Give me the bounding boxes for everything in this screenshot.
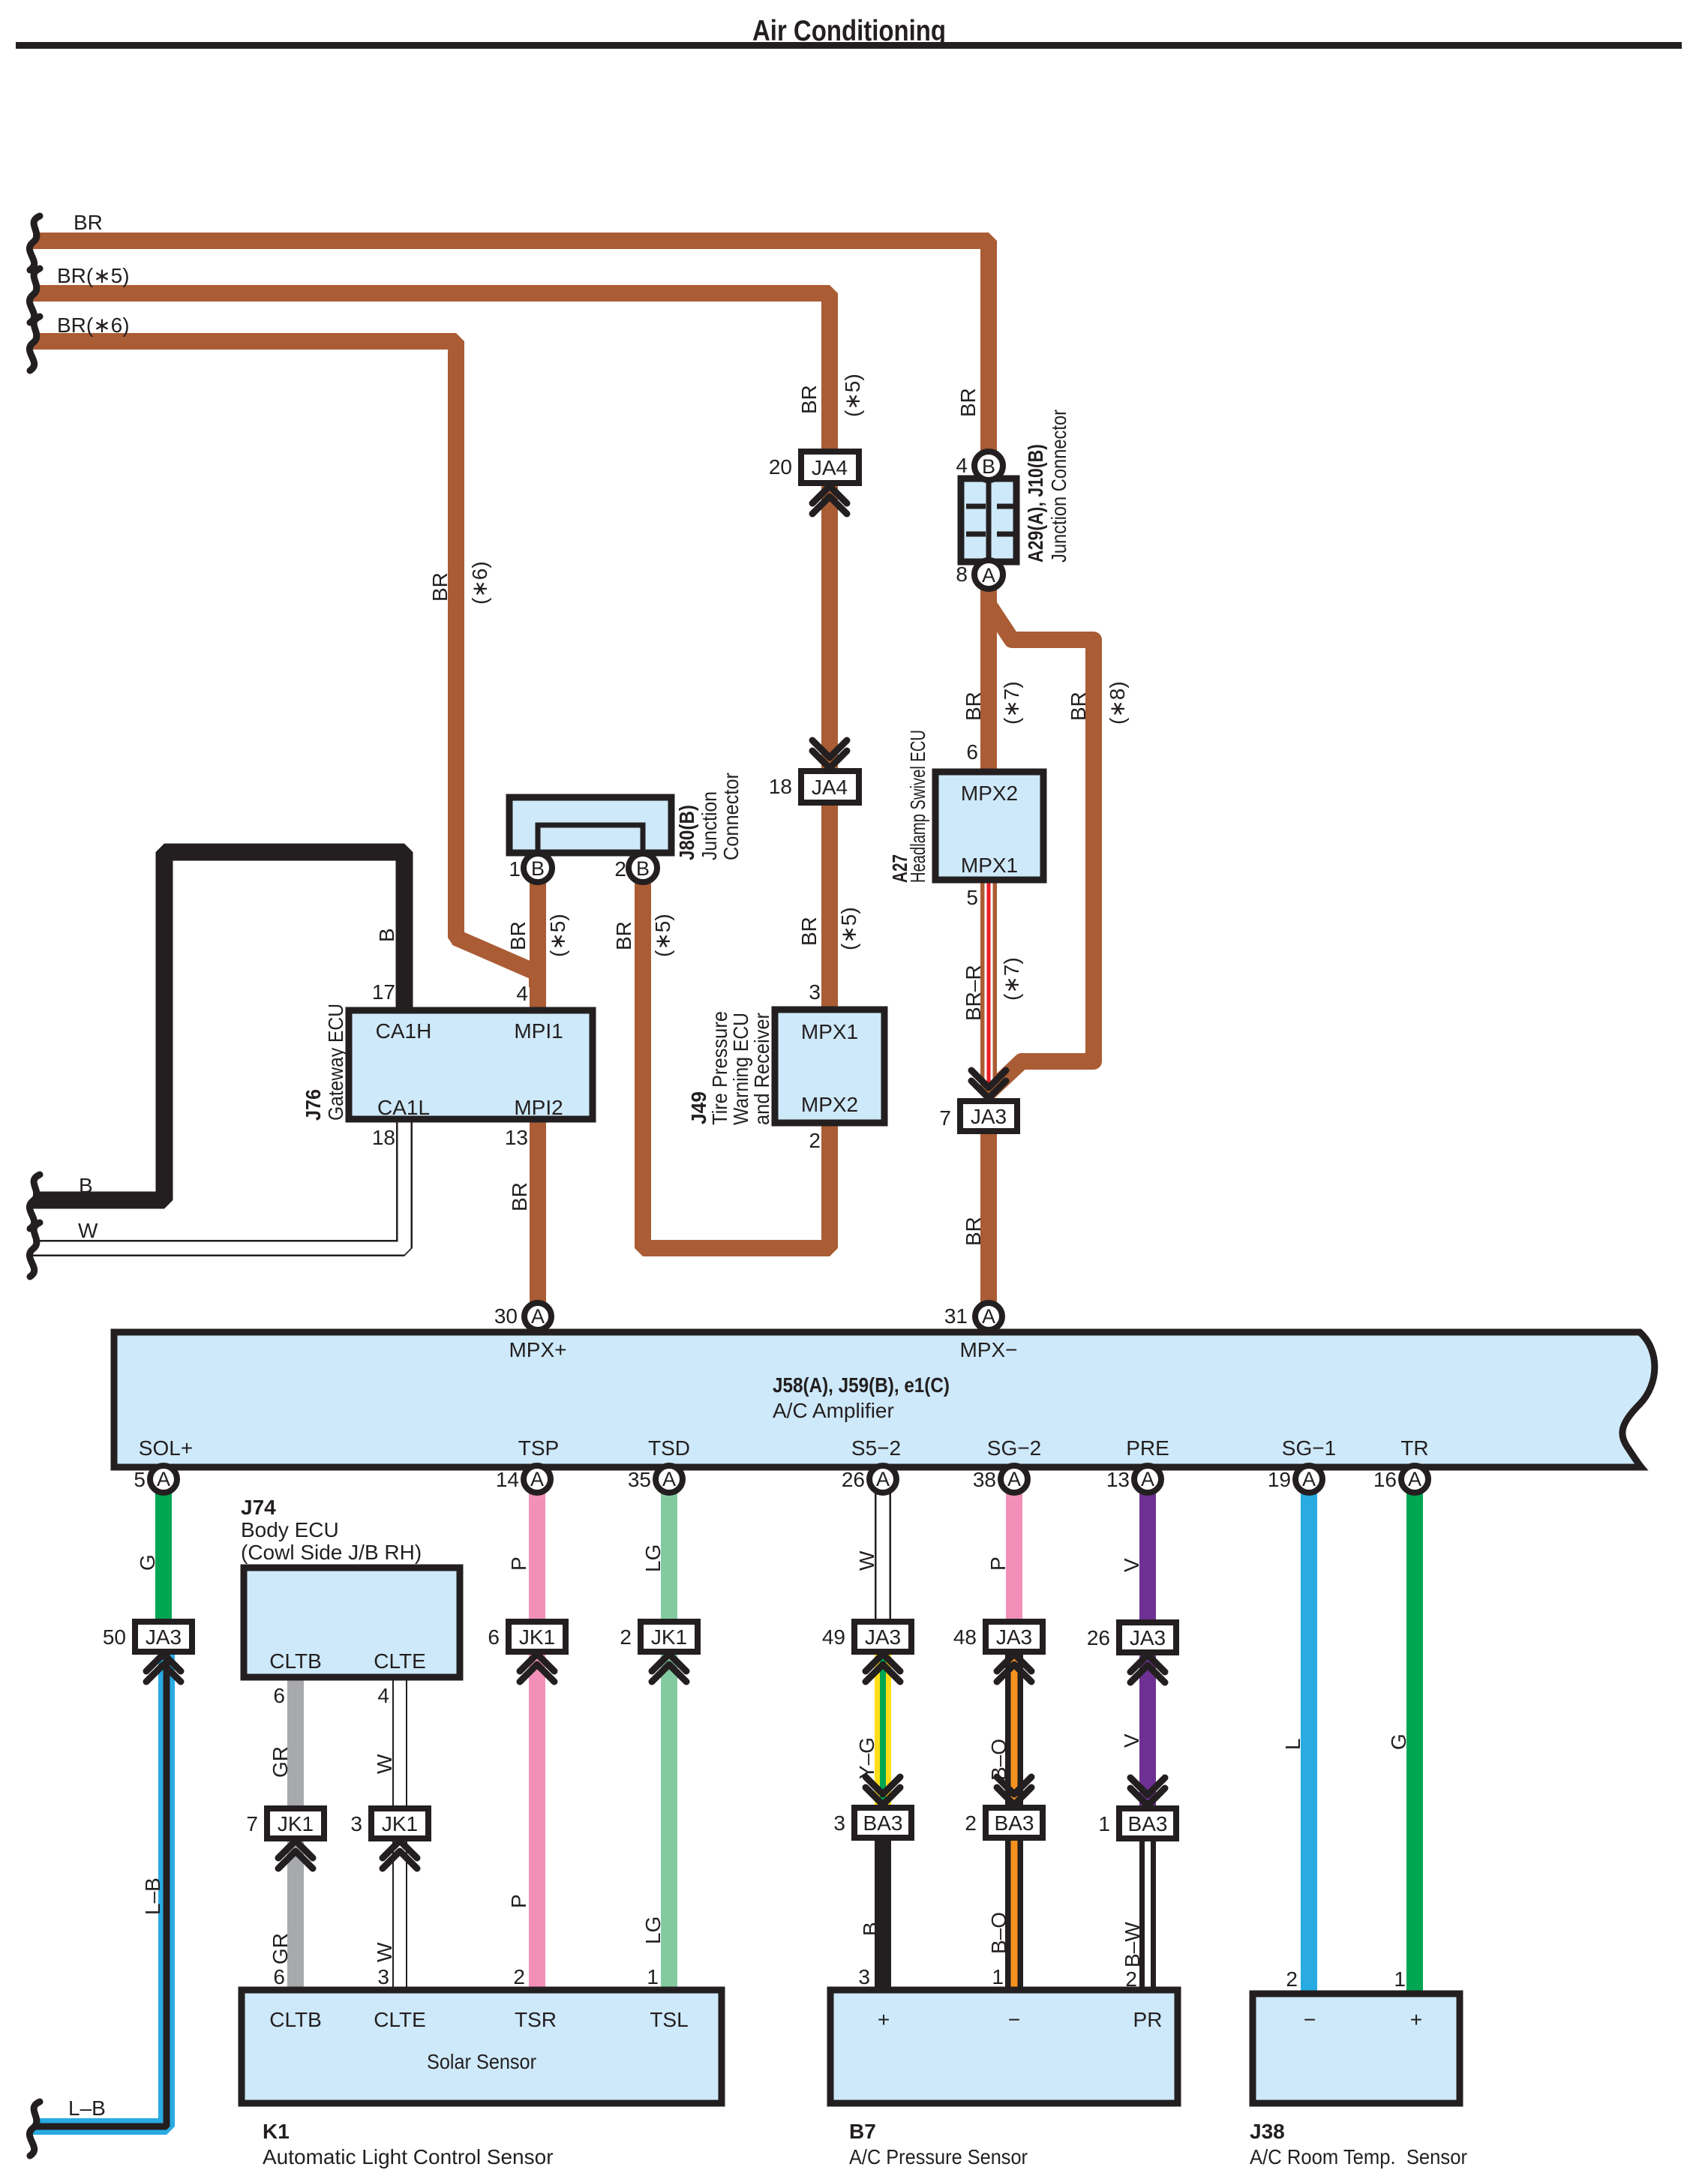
- svg-text:(∗7): (∗7): [1000, 681, 1023, 725]
- svg-text:CLTB: CLTB: [269, 1649, 322, 1673]
- svg-text:A: A: [876, 1468, 890, 1490]
- wire BR A29 pin A to A27 MPX2 pin 6: [980, 587, 997, 773]
- connector JK1 6: [509, 1622, 566, 1652]
- svg-text:TR: TR: [1400, 1436, 1428, 1460]
- svg-text:Junction: Junction: [698, 791, 721, 860]
- svg-text:+: +: [1410, 2008, 1422, 2031]
- svg-text:3: 3: [350, 1812, 362, 1835]
- svg-text:BR: BR: [508, 1182, 531, 1211]
- A/C amplifier box: [114, 1332, 1655, 1467]
- svg-text:MPX2: MPX2: [801, 1093, 858, 1116]
- pin A amplifier 16: [1401, 1466, 1428, 1493]
- connector JA3 49: [854, 1622, 911, 1652]
- connector JA4 18: [801, 771, 859, 803]
- svg-text:2: 2: [1125, 1967, 1137, 1991]
- svg-text:W: W: [373, 1754, 396, 1774]
- chevron up below JA3 26: [1130, 1655, 1165, 1682]
- svg-text:(∗6): (∗6): [468, 561, 491, 605]
- pin A amplifier 30: [524, 1303, 551, 1330]
- junction connector A29 dashed dividers: [966, 504, 1013, 509]
- connector JK1 2: [641, 1622, 698, 1652]
- svg-text:J80(B): J80(B): [675, 805, 698, 860]
- pressure sensor B7 box: [830, 1990, 1178, 2103]
- svg-text:A: A: [1007, 1468, 1021, 1490]
- pin A amplifier 26: [869, 1466, 896, 1493]
- svg-text:(∗5): (∗5): [546, 914, 569, 957]
- wire W amplifier S5-2 pin 26 to JA3 49: [875, 1491, 891, 1623]
- svg-text:B: B: [859, 1922, 882, 1936]
- svg-text:18: 18: [769, 775, 792, 798]
- svg-text:BR: BR: [428, 572, 452, 602]
- svg-text:BR: BR: [962, 692, 985, 721]
- svg-text:Y–G: Y–G: [855, 1737, 878, 1779]
- svg-text:4: 4: [377, 1684, 389, 1707]
- wire BR top to A29 pin B: [33, 241, 989, 452]
- svg-text:13: 13: [505, 1126, 528, 1149]
- wire P amplifier TSP pin 14 to JK1 6: [529, 1491, 545, 1623]
- svg-text:CLTE: CLTE: [374, 1649, 426, 1673]
- svg-text:7: 7: [246, 1812, 258, 1835]
- svg-text:6: 6: [273, 1965, 285, 1988]
- svg-text:7: 7: [939, 1106, 951, 1130]
- svg-text:BR–R: BR–R: [962, 965, 985, 1021]
- svg-text:B7: B7: [849, 2120, 876, 2143]
- wire B-O BA3 2 to pressure sensor pin 1: [1005, 1836, 1023, 1991]
- svg-text:(∗5): (∗5): [651, 914, 674, 957]
- svg-text:35: 35: [628, 1468, 651, 1491]
- svg-text:A: A: [530, 1468, 544, 1490]
- pin A amplifier 35: [656, 1466, 683, 1493]
- junction connector A29(A) J10(B) box: [961, 479, 1016, 562]
- svg-text:JA3: JA3: [1130, 1626, 1166, 1649]
- svg-text:LG: LG: [641, 1916, 665, 1944]
- wire BR(*6) to J80 pin 1 branch: [33, 341, 537, 987]
- svg-text:17: 17: [372, 980, 395, 1004]
- chevron down above BA3 2: [997, 1777, 1031, 1805]
- svg-text:J58(A), J59(B), e1(C): J58(A), J59(B), e1(C): [773, 1373, 950, 1397]
- svg-text:TSD: TSD: [648, 1436, 690, 1460]
- wire BR(*5) JA4 20 to JA4 18: [821, 482, 838, 773]
- svg-text:26: 26: [842, 1468, 865, 1491]
- svg-text:14: 14: [496, 1468, 519, 1491]
- svg-text:3: 3: [809, 980, 821, 1004]
- svg-text:4: 4: [956, 454, 968, 477]
- svg-text:2: 2: [1286, 1967, 1298, 1991]
- svg-text:JK1: JK1: [651, 1625, 687, 1649]
- svg-text:JA3: JA3: [146, 1625, 182, 1649]
- svg-text:JA4: JA4: [812, 776, 848, 799]
- headlamp swivel ECU A27 box: [935, 772, 1043, 880]
- junction connector J80(B) inner bus bar: [538, 825, 643, 853]
- svg-text:(∗5): (∗5): [841, 374, 864, 417]
- wire BR gateway MPI2 pin 13 to amplifier pin 30: [530, 1118, 546, 1313]
- wire L-B JA3 50 to bottom left: [33, 1650, 167, 2126]
- wire break curl BR(*6) wire3: [29, 317, 40, 371]
- svg-text:A29(A), J10(B): A29(A), J10(B): [1024, 444, 1047, 563]
- svg-text:SG−2: SG−2: [987, 1436, 1041, 1460]
- svg-text:−: −: [1008, 2008, 1020, 2031]
- svg-text:L–B: L–B: [141, 1877, 164, 1915]
- junction connector A29 vertical divider: [986, 482, 992, 559]
- svg-text:6: 6: [966, 740, 978, 764]
- wire BR(*5) J80 pin 1 to gateway MPI1 pin 4: [530, 879, 546, 1012]
- svg-text:CLTE: CLTE: [374, 2008, 426, 2031]
- svg-text:BR: BR: [797, 917, 821, 946]
- svg-text:(∗5): (∗5): [837, 907, 860, 950]
- wire P JK1 6 to solar sensor TSR pin 2: [529, 1650, 545, 1991]
- svg-text:CLTB: CLTB: [269, 2008, 322, 2031]
- body ECU J74 box: [244, 1568, 460, 1677]
- pin A amplifier 38: [1001, 1466, 1028, 1493]
- svg-text:J38: J38: [1250, 2120, 1285, 2143]
- svg-text:BR(∗6): BR(∗6): [57, 314, 130, 337]
- svg-text:2: 2: [614, 857, 626, 881]
- svg-text:48: 48: [953, 1625, 977, 1649]
- wire BR(*8) loop A29 to JA3 7: [984, 605, 1094, 1097]
- chevron up below JA4 20: [812, 486, 847, 514]
- svg-text:GR: GR: [269, 1933, 292, 1964]
- wire W JK1 3 to solar sensor CLTE pin 3: [392, 1837, 407, 1991]
- svg-text:MPX2: MPX2: [961, 782, 1018, 805]
- chevron up below JK1 3: [383, 1841, 417, 1868]
- svg-text:V: V: [1120, 1558, 1143, 1572]
- svg-text:1: 1: [992, 1965, 1004, 1988]
- svg-text:(∗8): (∗8): [1106, 681, 1129, 725]
- svg-text:2: 2: [809, 1129, 821, 1152]
- svg-text:JK1: JK1: [278, 1812, 314, 1835]
- svg-text:MPX−: MPX−: [959, 1338, 1017, 1361]
- svg-text:L: L: [1281, 1738, 1304, 1750]
- svg-text:W: W: [78, 1219, 98, 1242]
- svg-text:P: P: [507, 1894, 530, 1908]
- svg-text:JK1: JK1: [382, 1812, 418, 1835]
- svg-text:26: 26: [1087, 1626, 1110, 1649]
- svg-text:G: G: [1387, 1733, 1410, 1750]
- svg-text:J49: J49: [687, 1091, 710, 1124]
- svg-text:A: A: [982, 564, 995, 587]
- wire BR-R A27 MPX1 pin 5 to JA3 7: [980, 878, 997, 1088]
- wire G amplifier TR pin 16 to room temp sensor pin 1: [1406, 1491, 1423, 1995]
- connector BA3 3: [854, 1808, 911, 1838]
- wire W gateway CA1L pin 18 to left: [33, 1118, 404, 1248]
- svg-text:S5−2: S5−2: [851, 1436, 901, 1460]
- chevron up below JK1 7: [278, 1841, 313, 1868]
- svg-text:5: 5: [134, 1468, 146, 1491]
- svg-text:W: W: [373, 1942, 396, 1962]
- connector JA3 48: [986, 1622, 1043, 1652]
- pin A amplifier 5: [150, 1466, 177, 1493]
- svg-text:1: 1: [1098, 1812, 1110, 1835]
- wire B-W BA3 1 to pressure sensor PR pin 2: [1139, 1838, 1156, 1991]
- svg-text:JA3: JA3: [996, 1625, 1032, 1649]
- wire V JA3 26 to BA3 1: [1139, 1652, 1156, 1809]
- svg-text:B–W: B–W: [1121, 1922, 1144, 1967]
- svg-text:3: 3: [858, 1965, 870, 1988]
- chevron up below JK1 2: [652, 1654, 686, 1682]
- wire BR(*5) J80 pin 2 to J49 MPX2 pin 2: [643, 879, 830, 1248]
- svg-text:−: −: [1304, 2008, 1316, 2031]
- junction connector J80(B) box: [509, 797, 671, 853]
- svg-text:CA1L: CA1L: [377, 1096, 430, 1119]
- wire B BA3 3 to pressure sensor pin 3: [875, 1836, 891, 1991]
- chevron down above JA4 18: [812, 740, 847, 768]
- svg-text:BR: BR: [74, 211, 103, 234]
- pin B J80 2: [629, 854, 657, 882]
- svg-text:B–O: B–O: [987, 1912, 1010, 1954]
- svg-text:SOL+: SOL+: [139, 1436, 193, 1460]
- svg-text:A: A: [1302, 1468, 1316, 1490]
- svg-text:2: 2: [513, 1965, 525, 1988]
- pin A amplifier 14: [524, 1466, 551, 1493]
- svg-text:MPX1: MPX1: [801, 1020, 858, 1043]
- wire break curl L-B wire: [29, 2102, 40, 2156]
- connector JA3 7: [960, 1101, 1017, 1131]
- chevron down above JA3 7: [971, 1070, 1006, 1098]
- svg-text:1: 1: [509, 857, 521, 881]
- svg-text:B: B: [79, 1174, 93, 1197]
- pin A A29 bottom: [974, 560, 1003, 589]
- svg-text:A: A: [662, 1468, 676, 1490]
- svg-text:49: 49: [822, 1625, 845, 1649]
- pin A amplifier 13: [1134, 1466, 1161, 1493]
- svg-text:JA3: JA3: [865, 1625, 901, 1649]
- svg-text:1: 1: [647, 1965, 659, 1988]
- svg-text:SG−1: SG−1: [1282, 1436, 1336, 1460]
- svg-text:B: B: [636, 857, 650, 880]
- chevron down above BA3 1: [1130, 1778, 1165, 1805]
- svg-text:4: 4: [516, 982, 528, 1005]
- svg-text:BA3: BA3: [995, 1811, 1034, 1835]
- svg-text:JA3: JA3: [971, 1105, 1007, 1128]
- wire L amplifier SG-1 pin 19 to room temp sensor pin 2: [1301, 1491, 1317, 1995]
- svg-text:BA3: BA3: [863, 1811, 903, 1835]
- connector JA3 26: [1119, 1622, 1176, 1652]
- svg-text:BR: BR: [797, 385, 821, 414]
- svg-text:MPI2: MPI2: [514, 1096, 563, 1119]
- svg-text:A: A: [157, 1468, 170, 1490]
- svg-text:PR: PR: [1133, 2008, 1163, 2031]
- svg-text:2: 2: [965, 1811, 977, 1835]
- svg-text:V: V: [1120, 1733, 1143, 1748]
- svg-text:JK1: JK1: [519, 1625, 555, 1649]
- svg-text:Gateway ECU: Gateway ECU: [324, 1004, 347, 1121]
- svg-text:and Receiver: and Receiver: [750, 1013, 773, 1125]
- connector BA3 2: [986, 1808, 1043, 1838]
- svg-text:Tire Pressure: Tire Pressure: [708, 1011, 731, 1125]
- svg-text:6: 6: [273, 1684, 285, 1707]
- svg-text:A: A: [982, 1305, 995, 1328]
- svg-text:MPX+: MPX+: [509, 1338, 566, 1361]
- svg-text:2: 2: [620, 1625, 632, 1649]
- svg-text:BR: BR: [1067, 692, 1090, 721]
- svg-text:8: 8: [956, 563, 968, 586]
- gateway ECU J76 box: [349, 1010, 593, 1119]
- svg-text:B: B: [982, 455, 995, 478]
- svg-text:B: B: [375, 928, 398, 942]
- svg-text:A/C Amplifier: A/C Amplifier: [773, 1399, 894, 1422]
- wire GR body ECU CLTB pin 6 to JK1 7: [287, 1676, 304, 1810]
- svg-text:6: 6: [488, 1625, 500, 1649]
- svg-text:Junction Connector: Junction Connector: [1047, 410, 1070, 563]
- svg-text:16: 16: [1373, 1468, 1397, 1491]
- svg-text:Connector: Connector: [719, 773, 743, 860]
- solar sensor K1 box: [242, 1990, 722, 2103]
- tire pressure warning ECU J49 box: [775, 1010, 884, 1123]
- svg-text:Solar Sensor: Solar Sensor: [427, 2050, 536, 2073]
- wire GR JK1 7 to solar sensor CLTB pin 6: [287, 1837, 304, 1991]
- svg-text:19: 19: [1268, 1468, 1291, 1491]
- svg-text:A/C Pressure Sensor: A/C Pressure Sensor: [849, 2145, 1028, 2168]
- chevron up below JA3 49: [866, 1654, 900, 1682]
- svg-text:31: 31: [944, 1304, 968, 1328]
- svg-text:Warning ECU: Warning ECU: [729, 1013, 752, 1125]
- wire break curl BR wire1: [29, 216, 40, 270]
- wire V amplifier PRE pin 13 to JA3 26: [1139, 1491, 1156, 1624]
- svg-text:L–B: L–B: [68, 2096, 106, 2120]
- svg-text:TSP: TSP: [518, 1436, 559, 1460]
- svg-text:B: B: [531, 857, 545, 880]
- wire LG amplifier TSD pin 35 to JK1 2: [661, 1491, 677, 1623]
- svg-text:W: W: [855, 1550, 878, 1571]
- svg-text:J74: J74: [241, 1496, 276, 1519]
- svg-text:A: A: [531, 1305, 545, 1328]
- svg-text:LG: LG: [641, 1544, 665, 1572]
- svg-text:13: 13: [1106, 1468, 1130, 1491]
- svg-text:Automatic Light Control Sensor: Automatic Light Control Sensor: [263, 2145, 554, 2168]
- svg-text:Headlamp Swivel ECU: Headlamp Swivel ECU: [906, 730, 929, 883]
- svg-text:(∗7): (∗7): [1000, 957, 1023, 1001]
- svg-text:CA1H: CA1H: [376, 1019, 432, 1043]
- svg-text:P: P: [507, 1556, 530, 1571]
- svg-text:TSL: TSL: [650, 2008, 688, 2031]
- room temp sensor J38 box: [1253, 1994, 1460, 2103]
- wire G amplifier SOL+ pin 5 to JA3 50: [155, 1491, 172, 1623]
- svg-text:PRE: PRE: [1126, 1436, 1169, 1460]
- connector JK1 3: [371, 1808, 428, 1838]
- connector BA3 1: [1119, 1808, 1176, 1838]
- connector JA4 20: [801, 452, 859, 483]
- wire B gateway CA1H pin 17 to left: [33, 852, 404, 1200]
- svg-text:A/C Room Temp. Sensor: A/C Room Temp. Sensor: [1250, 2145, 1467, 2168]
- svg-text:BR: BR: [612, 921, 635, 950]
- chevron down above BA3 3: [866, 1777, 900, 1805]
- chevron up below JA3 50: [146, 1654, 181, 1682]
- svg-text:K1: K1: [263, 2120, 290, 2143]
- svg-text:MPI1: MPI1: [514, 1019, 563, 1043]
- svg-text:BR: BR: [956, 388, 980, 417]
- svg-text:J76: J76: [302, 1089, 325, 1121]
- svg-text:38: 38: [973, 1468, 996, 1491]
- pin A amplifier 31: [975, 1303, 1002, 1330]
- connector JK1 7: [267, 1808, 324, 1838]
- svg-text:TSR: TSR: [515, 2008, 557, 2031]
- wire break curl BR(*5) wire2: [29, 269, 40, 323]
- wire break curl W wire: [29, 1223, 40, 1277]
- pin B A29 top: [974, 452, 1003, 480]
- chevron up below JA3 48: [997, 1654, 1031, 1682]
- svg-text:1: 1: [1394, 1967, 1406, 1991]
- wire BR JA3 7 to amplifier pin 31: [980, 1128, 997, 1313]
- svg-text:50: 50: [103, 1625, 126, 1649]
- svg-text:GR: GR: [269, 1746, 292, 1778]
- svg-text:B–O: B–O: [987, 1739, 1010, 1781]
- svg-text:30: 30: [494, 1304, 518, 1328]
- svg-text:BR: BR: [506, 921, 530, 950]
- connector JA3 50: [135, 1622, 192, 1652]
- svg-text:BR: BR: [962, 1217, 985, 1246]
- svg-text:(Cowl Side J/B RH): (Cowl Side J/B RH): [241, 1541, 422, 1564]
- svg-text:JA4: JA4: [812, 456, 848, 479]
- wire Y-G JA3 49 to BA3 3: [875, 1650, 891, 1809]
- svg-text:3: 3: [833, 1811, 845, 1835]
- svg-text:MPX1: MPX1: [961, 854, 1018, 877]
- chevron up below JK1 6: [520, 1654, 554, 1682]
- title rule: [16, 42, 1682, 49]
- svg-text:18: 18: [372, 1126, 395, 1149]
- svg-text:BA3: BA3: [1128, 1812, 1168, 1835]
- wire BR(*5) to JA4 20: [33, 293, 830, 453]
- svg-text:5: 5: [966, 886, 978, 909]
- wire BR(*5) JA4 18 to J49 MPX1 pin 3: [821, 800, 838, 1011]
- wire break curl B wire: [29, 1175, 40, 1229]
- wire LG JK1 2 to solar sensor TSL pin 1: [661, 1650, 677, 1991]
- svg-text:3: 3: [377, 1965, 389, 1988]
- svg-text:A: A: [1141, 1468, 1154, 1490]
- svg-text:G: G: [136, 1554, 159, 1571]
- wire P amplifier SG-2 pin 38 to JA3 48: [1006, 1491, 1022, 1623]
- svg-text:BR(∗5): BR(∗5): [57, 264, 130, 287]
- svg-text:+: +: [878, 2008, 890, 2031]
- pin A amplifier 19: [1295, 1466, 1322, 1493]
- pin B J80 1: [524, 854, 552, 882]
- svg-text:20: 20: [769, 455, 792, 479]
- svg-text:P: P: [986, 1556, 1010, 1571]
- wire W body ECU CLTE pin 4 to JK1 3: [392, 1676, 407, 1810]
- svg-text:A: A: [1408, 1468, 1421, 1490]
- svg-text:Body ECU: Body ECU: [241, 1518, 339, 1541]
- wire B-O JA3 48 to BA3 2: [1005, 1650, 1023, 1809]
